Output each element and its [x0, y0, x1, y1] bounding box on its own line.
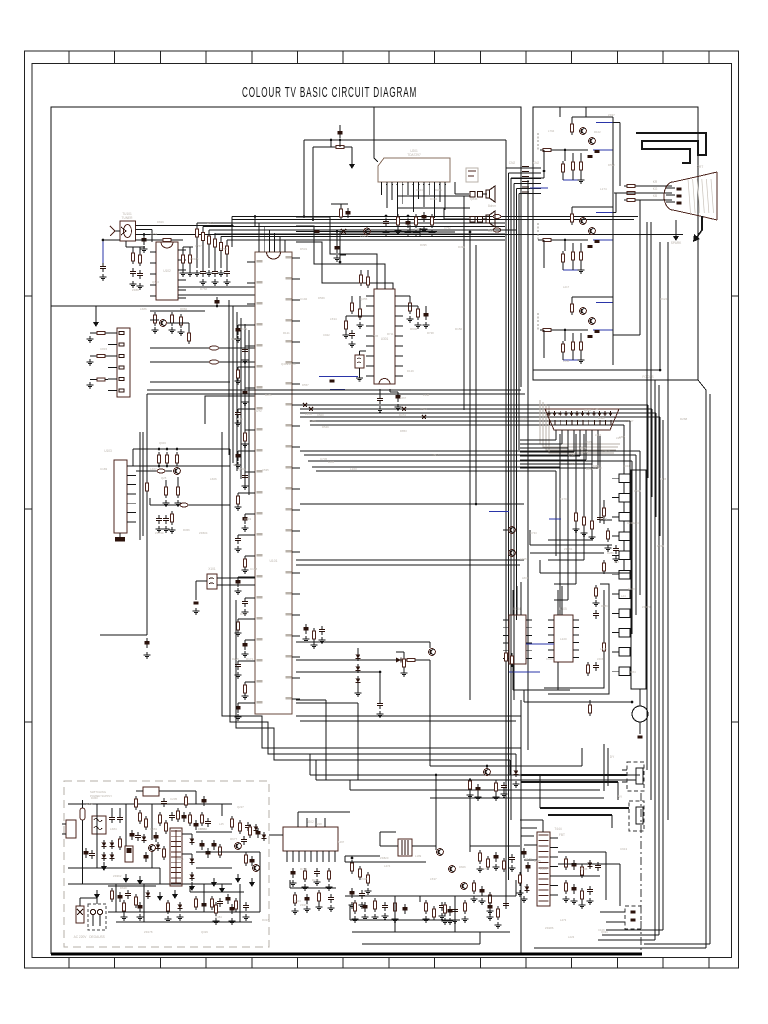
- degauss wires: [79, 898, 81, 906]
- wire speaker feed 1: [455, 193, 463, 195]
- svg-text:Q903: Q903: [159, 441, 166, 445]
- svg-text:R619: R619: [244, 517, 252, 521]
- wire bundle v1: [232, 306, 234, 463]
- vertical feed x313: [312, 147, 314, 220]
- comps near Q151: [468, 778, 471, 792]
- svg-text:C192: C192: [300, 297, 308, 301]
- svg-text:L819: L819: [522, 576, 529, 580]
- comps right of main IC lower: [303, 624, 308, 634]
- transistor Q301: [364, 228, 371, 235]
- keyboard strip: [631, 470, 646, 689]
- resistor R3x on x147: [145, 480, 148, 494]
- svg-text:C860: C860: [595, 466, 602, 470]
- bottom horizontal y860: [345, 861, 426, 863]
- speaker SP1: [486, 190, 489, 198]
- svg-text:ZD178: ZD178: [144, 930, 153, 934]
- svg-text:L24: L24: [621, 594, 626, 598]
- startup resistors: [138, 810, 141, 824]
- svg-text:R286: R286: [607, 551, 614, 555]
- svg-text:R561: R561: [598, 416, 605, 420]
- CN7 inner pin: [636, 807, 643, 824]
- PWM components: [188, 812, 191, 826]
- wire top left vertical: [95, 306, 97, 318]
- transistor Q151 bottom: [484, 769, 491, 776]
- svg-text:L979: L979: [560, 497, 567, 501]
- wires tuner area to audio: [330, 140, 332, 147]
- optocoupler U801: [143, 787, 159, 796]
- svg-text:AC 220V: AC 220V: [74, 935, 88, 939]
- resistor R160: [402, 656, 405, 670]
- svg-text:D964: D964: [634, 489, 641, 493]
- green video amplifier cell QG1 QG2: [538, 207, 613, 273]
- eeprom gnd bar: [115, 537, 125, 542]
- main board outline box: [51, 107, 521, 954]
- AV input connector CN101: [117, 328, 130, 397]
- psu opto area: [134, 796, 137, 810]
- svg-text:R589: R589: [601, 604, 608, 608]
- svg-text:R624: R624: [660, 297, 668, 301]
- wire video G to CRT: [613, 212, 616, 214]
- wire speaker feed 2: [444, 218, 463, 220]
- svg-text:D976: D976: [569, 462, 576, 466]
- secondary output wires: [182, 833, 192, 835]
- heavy wires to yoke connectors: [521, 774, 627, 776]
- right vertical rails far: [705, 390, 707, 948]
- driver transformer T402: [398, 839, 412, 856]
- SAW filter Z101 cluster: [131, 250, 134, 264]
- diode D156: [514, 768, 519, 777]
- resistor R105 on IF line: [160, 238, 174, 241]
- wire from IF area up: [254, 217, 256, 227]
- oval component on top wire: [493, 215, 501, 219]
- svg-text:D360: D360: [91, 796, 98, 800]
- yoke arrow hook: [697, 216, 702, 237]
- vertical drops right of step: [520, 700, 522, 748]
- svg-text:L794: L794: [548, 129, 555, 133]
- wire tuner tune volt: [136, 229, 153, 231]
- ghost wires around connector: [540, 400, 620, 453]
- svg-text:R882: R882: [180, 307, 188, 311]
- svg-text:R395: R395: [420, 243, 427, 247]
- main IC right pin stubs: [286, 256, 301, 699]
- svg-text:KR: KR: [653, 180, 658, 184]
- wire y505 with oval: [150, 504, 230, 506]
- svg-text:FOCUS: FOCUS: [642, 375, 653, 379]
- wire AGC down: [231, 226, 233, 248]
- X capacitor: [109, 814, 115, 823]
- bottom mid cluster D: [472, 880, 475, 894]
- wire y231 with parts: [296, 231, 437, 233]
- U301 left pins: [366, 296, 374, 376]
- wire audio gnd bus: [340, 231, 455, 233]
- vertical sync feeds: [435, 775, 437, 846]
- svg-text:ZD717: ZD717: [602, 449, 611, 453]
- yoke heavy wire upper: [636, 133, 706, 163]
- svg-text:ZD558: ZD558: [287, 362, 296, 366]
- svg-text:L474: L474: [384, 864, 391, 868]
- svg-text:C149: C149: [525, 857, 532, 861]
- svg-text:R544: R544: [240, 612, 248, 616]
- blue wire right of IC y376: [319, 376, 358, 378]
- svg-text:L217: L217: [563, 285, 570, 289]
- svg-text:L415: L415: [600, 647, 607, 651]
- ground arrows psu: [101, 862, 107, 871]
- blue wire below ICs: [509, 671, 540, 673]
- IF IC right pins: [178, 249, 186, 251]
- svg-text:D766: D766: [200, 287, 208, 291]
- long vertical x470: [469, 232, 471, 700]
- bottom mid cluster C: [478, 850, 481, 864]
- svg-text:C913: C913: [620, 847, 628, 851]
- bus bends to keys: [556, 405, 660, 634]
- svg-text:L346: L346: [593, 407, 600, 411]
- right vertical rails: [654, 385, 656, 940]
- svg-text:C500: C500: [317, 413, 324, 417]
- connector gnd stubs: [87, 336, 94, 342]
- comps near audio pins: [396, 214, 399, 228]
- keyboard keys: [612, 474, 630, 676]
- svg-text:ZD962: ZD962: [113, 874, 122, 878]
- wire y348 with oval L101: [150, 347, 255, 349]
- wires below ICs: [512, 664, 514, 690]
- rail bottom bends: [598, 939, 655, 941]
- bottom fill bus y896: [345, 895, 516, 897]
- svg-text:R654: R654: [629, 670, 636, 674]
- sheet side ticks: [25, 296, 739, 722]
- svg-text:DEGAUSS: DEGAUSS: [89, 935, 105, 939]
- labels scatter 2: [86, 113, 667, 939]
- svg-text:ZD972: ZD972: [360, 234, 369, 238]
- red video amplifier cell QR1 QR2: [538, 117, 613, 183]
- pullup resistors R141-R143: [157, 452, 160, 466]
- svg-text:L534: L534: [330, 317, 337, 321]
- dash-dot chassis line: [640, 793, 642, 952]
- CRT verticals down: [646, 222, 648, 770]
- CRT heater pins: [666, 187, 675, 189]
- svg-text:D272: D272: [255, 409, 262, 413]
- svg-text:R738: R738: [427, 331, 434, 335]
- svg-text:L196: L196: [236, 417, 243, 421]
- tuner TU101: [120, 221, 136, 241]
- resistor R-KG: [624, 191, 638, 194]
- psu lower bus: [108, 911, 260, 913]
- svg-text:R366: R366: [183, 528, 190, 532]
- svg-text:L163: L163: [350, 467, 357, 471]
- caps under eeprom: [156, 515, 162, 524]
- svg-text:R228: R228: [232, 657, 239, 661]
- bottom mid cluster A wires: [345, 855, 380, 857]
- svg-text:C733: C733: [530, 531, 537, 535]
- power top bus: [68, 803, 232, 805]
- IF IC left pins: [150, 251, 156, 253]
- audio region caps: [383, 218, 389, 227]
- wire group main right to bottom: [296, 715, 521, 717]
- wire y864 to CN8: [558, 863, 620, 865]
- eeprom bus y449: [133, 448, 230, 450]
- wire x358 down: [357, 703, 359, 780]
- electrolytic C201: [337, 128, 342, 138]
- bottom right cluster: [564, 856, 567, 870]
- horizontal y565 wire: [296, 564, 520, 566]
- svg-text:KB: KB: [653, 194, 657, 198]
- wire y470 with oval: [136, 470, 172, 472]
- svg-text:Q336: Q336: [568, 453, 575, 457]
- resistor R156 on drive: [404, 658, 418, 661]
- CN3 long drops to micro ICs: [559, 434, 561, 615]
- U301 right pins: [395, 296, 403, 376]
- wire bus vertical 5: [518, 194, 520, 451]
- svg-text:R102: R102: [594, 130, 601, 134]
- svg-text:R57: R57: [614, 560, 620, 564]
- bottom fill bus y932: [352, 931, 510, 933]
- svg-text:C138: C138: [250, 567, 258, 571]
- vertical feeds into bottom: [309, 754, 311, 775]
- svg-text:C665: C665: [585, 440, 592, 444]
- FBT primary wires: [542, 820, 544, 832]
- svg-text:L95: L95: [616, 436, 621, 440]
- svg-text:C205: C205: [170, 797, 178, 801]
- U301 right resistors: [408, 300, 411, 314]
- wire y396 corner: [205, 396, 255, 424]
- power mid bus: [68, 867, 160, 869]
- svg-text:CRT: CRT: [697, 165, 704, 169]
- psu vertical wires: [82, 828, 84, 884]
- svg-text:L964: L964: [595, 433, 602, 437]
- svg-text:C745: C745: [320, 457, 328, 461]
- svg-text:COLOUR TV BASIC CIRCUIT DIAGRA: COLOUR TV BASIC CIRCUIT DIAGRAM: [242, 85, 417, 101]
- heater wire pair: [521, 827, 537, 829]
- CN8 wires: [600, 911, 625, 913]
- wire drive corner down: [429, 660, 431, 766]
- svg-text:C815: C815: [100, 347, 108, 351]
- svg-text:L606: L606: [210, 477, 217, 481]
- svg-text:R784: R784: [220, 247, 228, 251]
- svg-text:Q253: Q253: [584, 408, 591, 412]
- nested loop wires around U105: [548, 584, 609, 694]
- wire audio out bus: [397, 207, 470, 209]
- svg-text:C538: C538: [628, 587, 635, 591]
- svg-text:L684: L684: [110, 827, 117, 831]
- svg-text:Q227: Q227: [237, 805, 244, 809]
- svg-text:C922: C922: [323, 333, 330, 337]
- resistor R118: [188, 252, 191, 266]
- svg-text:D628: D628: [120, 886, 127, 890]
- U202 pins top: [298, 818, 325, 827]
- svg-text:R285: R285: [435, 188, 442, 192]
- CN6 inner pin: [636, 768, 643, 784]
- svg-text:L667: L667: [400, 396, 407, 400]
- svg-text:Q991: Q991: [601, 930, 608, 934]
- CRT gun electrodes: [677, 188, 682, 191]
- diode stack D151-D153: [356, 652, 361, 661]
- svg-text:D344: D344: [416, 188, 423, 192]
- IR receiver circle: [632, 706, 648, 722]
- svg-text:Q576: Q576: [480, 867, 488, 871]
- IF amplifier IC U102: [156, 242, 178, 300]
- svg-text:L202: L202: [582, 450, 589, 454]
- svg-text:D129: D129: [407, 369, 414, 373]
- FBT right pins: [550, 838, 558, 895]
- U202 wires: [269, 834, 283, 836]
- svg-text:ZD979: ZD979: [642, 605, 651, 609]
- svg-text:D826: D826: [231, 337, 238, 341]
- oval component on top wire 2: [493, 228, 501, 232]
- svg-text:D150: D150: [455, 327, 463, 331]
- svg-text:L174: L174: [600, 187, 607, 191]
- svg-text:R174: R174: [240, 327, 248, 331]
- wire tuner IF out: [136, 234, 684, 236]
- svg-text:TDA7297: TDA7297: [407, 153, 421, 157]
- svg-text:L45: L45: [219, 822, 224, 826]
- transistor Q402: [437, 849, 444, 856]
- CRT gnd spark gap: [673, 232, 679, 241]
- CN3 drop bends: [554, 599, 568, 601]
- svg-text:R204: R204: [86, 802, 93, 806]
- svg-text:C147: C147: [520, 417, 528, 421]
- main board outline lower right: [520, 700, 522, 954]
- svg-text:C535: C535: [262, 468, 269, 472]
- main board heavy bottom edge: [51, 953, 642, 956]
- svg-text:L546: L546: [563, 359, 570, 363]
- wire pair top long: [232, 216, 638, 218]
- svg-text:Q329: Q329: [201, 930, 208, 934]
- micro IC U3 pins: [548, 620, 579, 658]
- svg-text:Q846: Q846: [470, 197, 478, 201]
- wire bundle v2: [236, 312, 238, 471]
- wire bus vertical 0: [505, 168, 507, 906]
- CRT funnel: [664, 172, 717, 220]
- svg-text:D606: D606: [459, 865, 466, 869]
- svg-text:L226: L226: [305, 412, 312, 416]
- video cluster left of IC: [160, 320, 167, 327]
- svg-text:C228: C228: [315, 822, 322, 826]
- wire y362 with oval L102: [150, 361, 255, 363]
- psu lower comps: [122, 900, 125, 914]
- svg-text:L189: L189: [415, 854, 422, 858]
- wires above ICs: [512, 590, 514, 615]
- U301 bottom components: [377, 395, 383, 404]
- svg-text:Q254: Q254: [150, 232, 158, 236]
- sheet top division ticks: [69, 51, 709, 64]
- resistor R-KR: [624, 184, 638, 187]
- resistor R201: [333, 145, 347, 148]
- FBT left comps: [521, 848, 526, 858]
- bottom right cluster wires: [558, 851, 606, 853]
- svg-text:C767: C767: [195, 244, 202, 248]
- eeprom pins: [127, 466, 136, 522]
- svg-text:L148: L148: [423, 393, 430, 397]
- video supply rail: [612, 117, 614, 365]
- ground audio: [349, 160, 355, 169]
- wire y642: [296, 641, 430, 643]
- blue wire right of IC y389: [330, 389, 345, 391]
- transistor Q104: [174, 468, 181, 475]
- U202 bottom comps: [290, 868, 295, 878]
- yoke connector CN7 dashed: [629, 801, 644, 831]
- svg-text:D602: D602: [432, 453, 439, 457]
- svg-text:8ohm: 8ohm: [488, 204, 496, 208]
- eeprom IC U103: [114, 460, 127, 533]
- svg-text:L220: L220: [560, 637, 567, 641]
- long vertical x476: [475, 245, 477, 504]
- SMPS transformer T801: [170, 828, 182, 886]
- yoke connector CN6 dashed: [627, 762, 644, 791]
- power supply dashed enclosure: [64, 781, 269, 947]
- svg-text:D549: D549: [322, 425, 329, 429]
- wire IR to left: [524, 701, 632, 703]
- psu switch snubber: [156, 842, 161, 851]
- svg-text:C608: C608: [360, 877, 368, 881]
- wire video B to CRT: [612, 303, 614, 336]
- svg-text:C25: C25: [414, 227, 420, 231]
- bridge diodes D801-4: [102, 840, 107, 849]
- diode X marks on buses: [303, 403, 426, 419]
- svg-text:TUNER: TUNER: [122, 216, 134, 220]
- wire bundle v0: [228, 300, 230, 455]
- blue video amplifier cell QB1 QB2: [538, 297, 613, 363]
- svg-text:D557: D557: [302, 383, 309, 387]
- psu mid caps: [83, 848, 88, 858]
- wire bundle v5: [248, 330, 250, 495]
- svg-text:R225: R225: [657, 544, 664, 548]
- blue interconnect segment: [530, 187, 548, 189]
- AC inlet: [66, 820, 76, 838]
- svg-text:CN2: CN2: [509, 161, 516, 165]
- bottom mid cluster B: [424, 900, 427, 914]
- main IC left pin stubs: [247, 260, 263, 703]
- wire y140 to interconnect: [374, 139, 506, 141]
- electrolytic C120 on feed: [214, 297, 219, 307]
- horizontal y560 wire: [296, 559, 524, 561]
- fuse F801: [80, 808, 85, 820]
- audio amplifier IC U201: [378, 158, 450, 182]
- svg-text:U301: U301: [381, 337, 389, 341]
- top area vertical drops: [409, 225, 411, 232]
- svg-text:Q25: Q25: [161, 476, 167, 480]
- rv pair x506: [504, 650, 507, 664]
- svg-text:R946: R946: [410, 327, 418, 331]
- resistor R-IR: [588, 702, 591, 716]
- svg-text:D247: D247: [586, 467, 594, 471]
- wire bus vertical 2: [510, 178, 512, 820]
- svg-text:L415: L415: [660, 477, 667, 481]
- vertical feed x304 from audio area: [303, 140, 305, 217]
- main-CRT connector CN3 trapezoid: [545, 409, 619, 430]
- wire y766 to flyback: [430, 765, 582, 767]
- svg-text:L497: L497: [338, 840, 345, 844]
- svg-text:Q406: Q406: [580, 867, 588, 871]
- step wires to bottom: [222, 560, 521, 748]
- svg-text:D474: D474: [399, 413, 406, 417]
- svg-text:D394: D394: [430, 197, 438, 201]
- wire video G input: [538, 177, 544, 179]
- main IC left pin decoupling chains: [235, 325, 249, 720]
- bottom connector CN8 dashed: [625, 906, 641, 929]
- svg-text:C752: C752: [444, 226, 451, 230]
- svg-text:FBT: FBT: [559, 833, 565, 837]
- blue wire y519: [549, 518, 561, 520]
- degauss connector dashed: [88, 904, 106, 930]
- audio output IC U202: [283, 827, 338, 851]
- svg-text:Q484: Q484: [215, 915, 222, 919]
- transistor Q202: [509, 550, 516, 557]
- resistor pair R311 R312: [359, 272, 362, 286]
- audio IC pins: [381, 182, 446, 218]
- transistor Q106: [429, 649, 436, 656]
- psu feedback parts: [248, 824, 251, 838]
- wire x326 down: [325, 700, 327, 780]
- svg-text:ZD604: ZD604: [199, 531, 208, 535]
